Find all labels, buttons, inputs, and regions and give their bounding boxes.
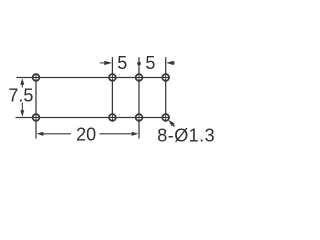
dimension 20 horizontal line with arrows [37, 132, 139, 136]
hole H5 bottom-left [32, 113, 41, 122]
wire top row line [17, 77, 166, 79]
wire column at x=112.4 with extension above [111, 57, 113, 117]
svg-text:5: 5 [117, 53, 127, 73]
wire bottom row line [16, 117, 166, 119]
dimension 5 (left span) arrow left outside [100, 61, 112, 65]
svg-text:5: 5 [145, 53, 155, 73]
hole H1 top-left [32, 73, 41, 82]
dimension 7.5 vertical line with arrows [20, 78, 24, 116]
hole H4 top-right [161, 73, 170, 82]
svg-text:7.5: 7.5 [8, 86, 33, 106]
svg-text:20: 20 [76, 124, 96, 144]
hole H7 bottom third [135, 113, 144, 122]
wire column at x=139 with extensions above and below [138, 57, 140, 138]
wire left edge with extension below [35, 78, 37, 139]
hole H8 bottom-right [161, 113, 170, 122]
hole H6 bottom second [108, 113, 117, 122]
svg-text:8-Ø1.3: 8-Ø1.3 [157, 126, 215, 146]
leader arrow to bottom-right hole [168, 120, 174, 127]
hole H3 top third [135, 73, 144, 82]
hole H2 top second [108, 73, 117, 82]
wire right edge with extension above [165, 57, 167, 117]
dimension 5 (right span) arrow right outside [166, 61, 175, 65]
dimension shared middle dot [137, 62, 141, 66]
